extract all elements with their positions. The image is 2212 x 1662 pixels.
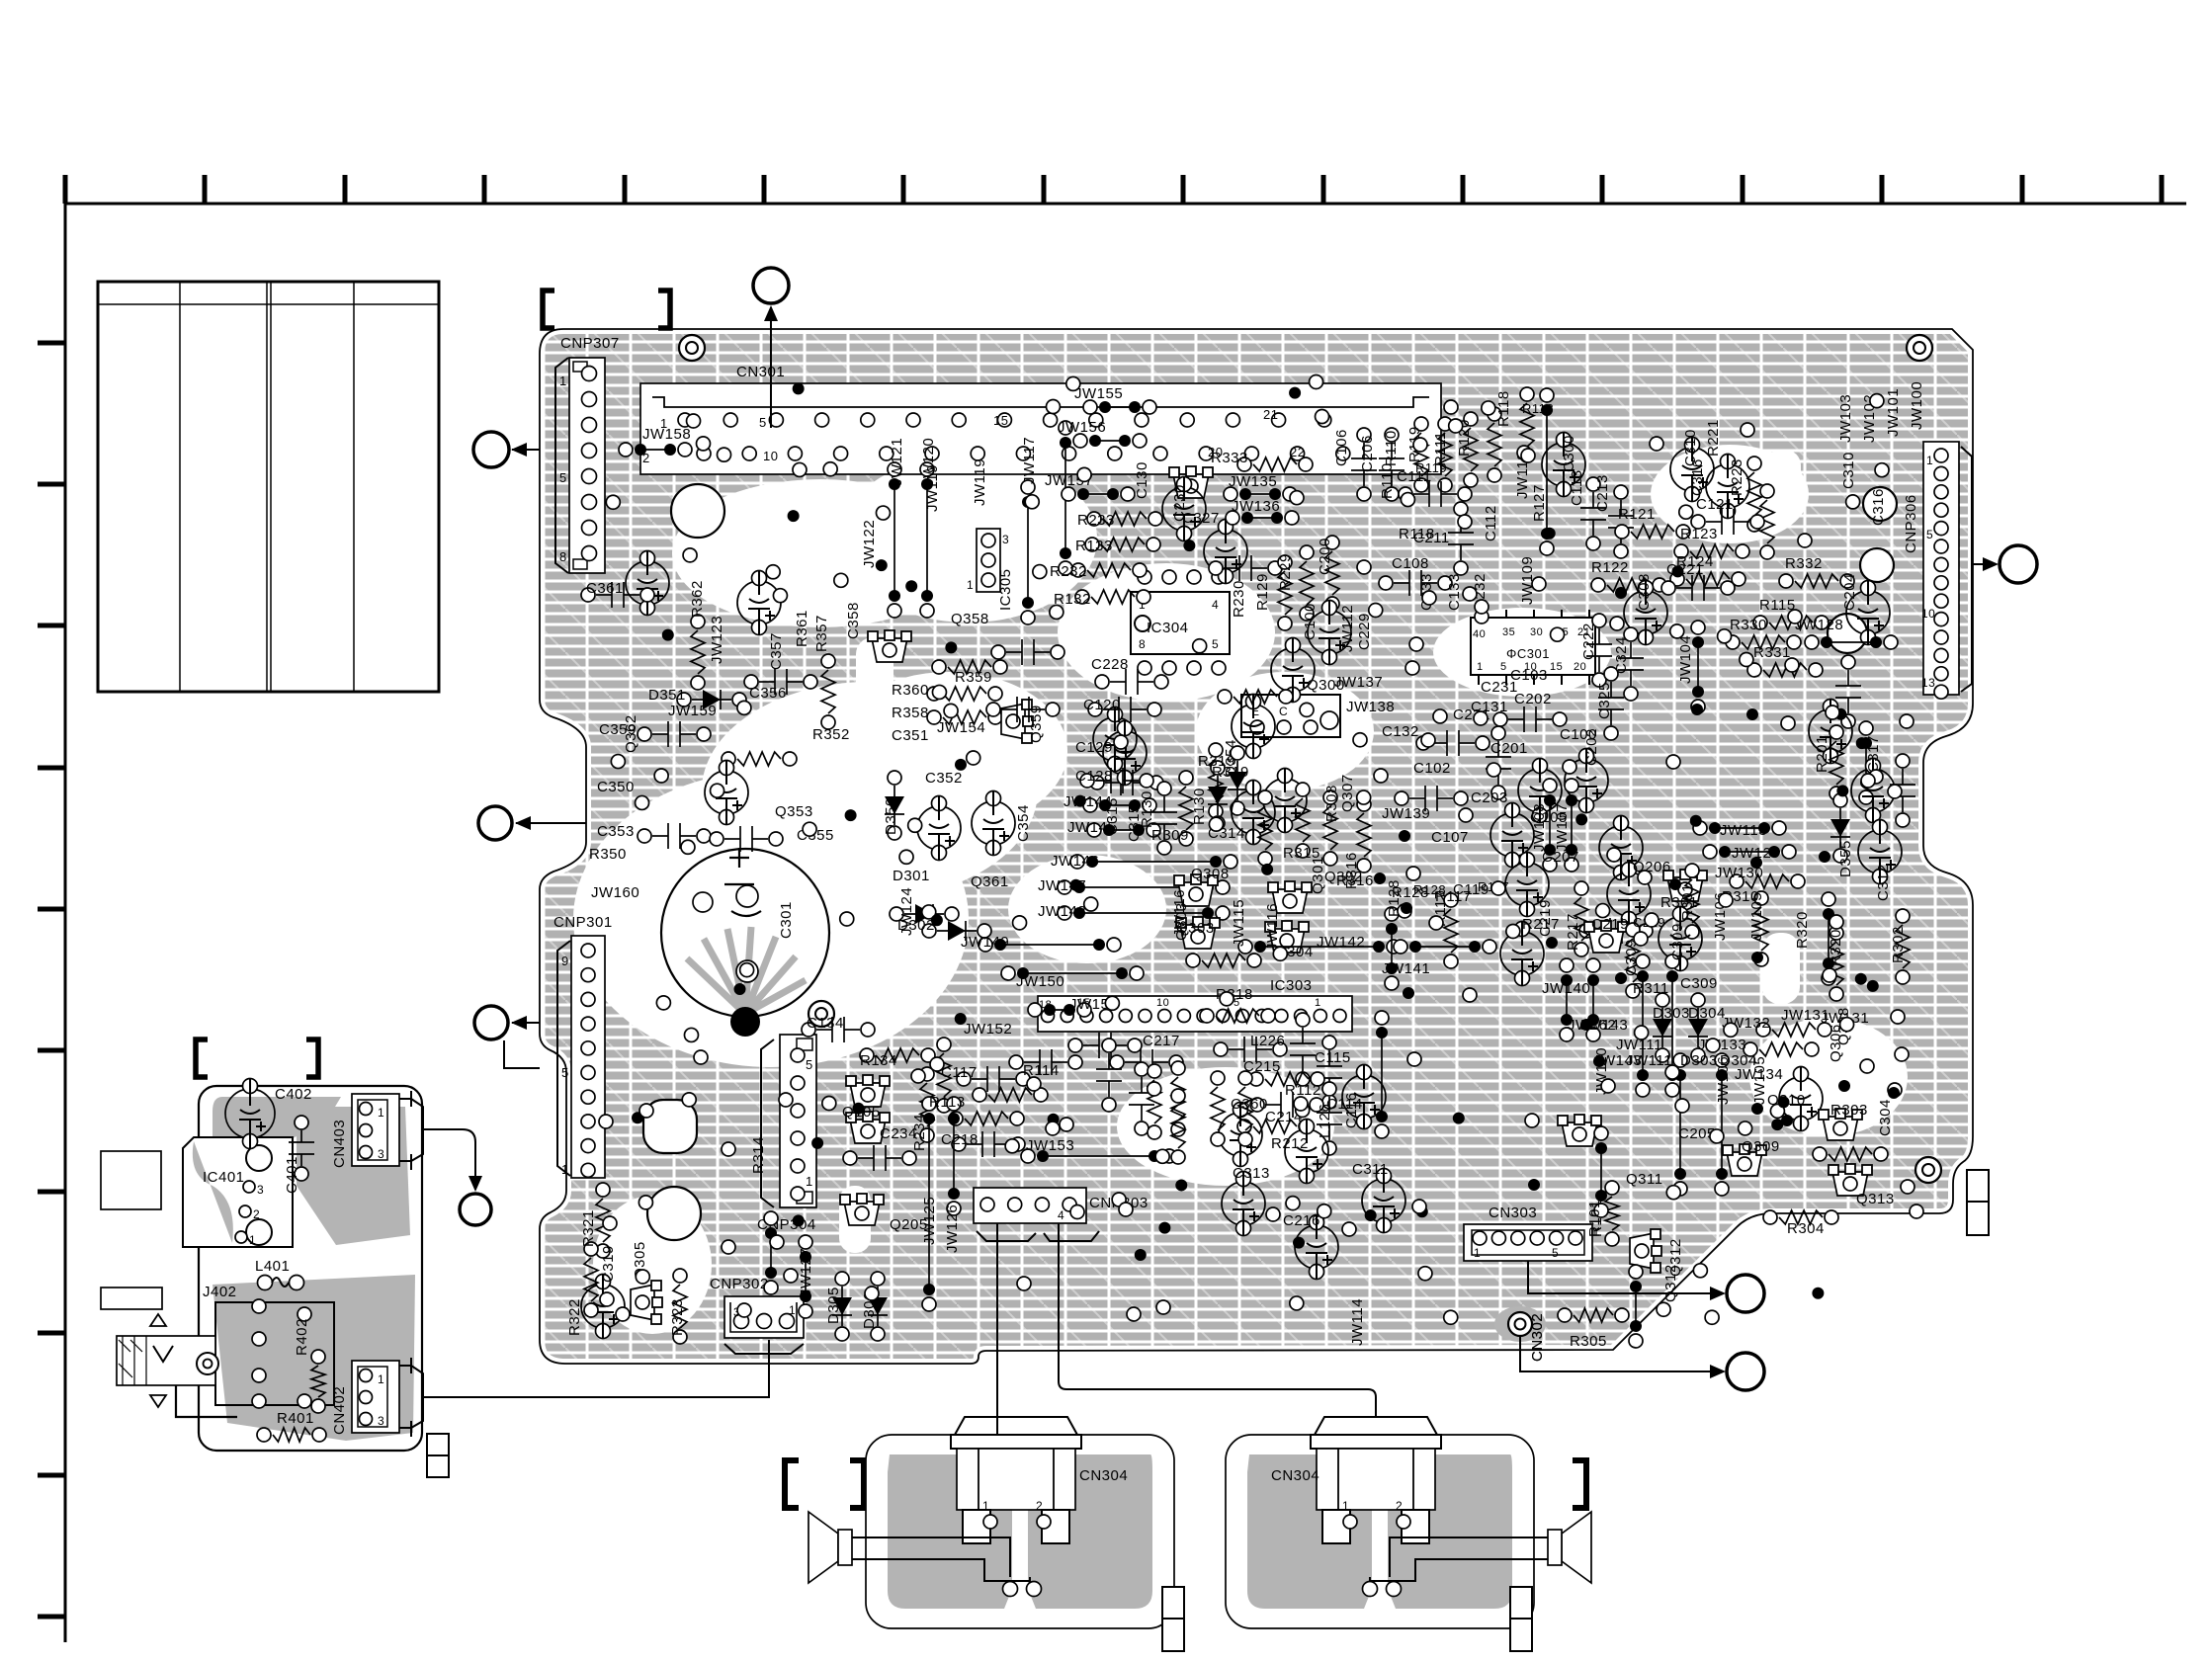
transistor D354 block bbox=[1241, 695, 1340, 737]
svg-text:C361: C361 bbox=[586, 580, 624, 597]
resistor bbox=[1685, 864, 1699, 939]
svg-text:R332: R332 bbox=[1785, 555, 1823, 572]
capacitor bbox=[986, 697, 1060, 722]
svg-text:1: 1 bbox=[1926, 454, 1933, 467]
diode bbox=[922, 921, 991, 941]
svg-text:CNP302: CNP302 bbox=[710, 1276, 769, 1292]
svg-text:1: 1 bbox=[378, 1372, 384, 1386]
svg-text:1: 1 bbox=[982, 1499, 989, 1513]
speaker block right CN304 bbox=[1226, 1417, 1591, 1628]
svg-text:C311: C311 bbox=[1352, 1161, 1389, 1178]
top tick marks bbox=[65, 175, 2162, 204]
capacitor bbox=[1110, 1049, 1183, 1075]
svg-text:JW138: JW138 bbox=[1346, 699, 1395, 715]
svg-text:C360: C360 bbox=[1231, 1096, 1268, 1113]
svg-text:15: 15 bbox=[993, 413, 1008, 428]
diode bbox=[1688, 993, 1708, 1062]
capacitor bbox=[1379, 428, 1404, 501]
svg-text:10: 10 bbox=[1921, 607, 1935, 621]
solder dot bbox=[730, 1007, 760, 1037]
svg-text:D350: D350 bbox=[883, 797, 899, 835]
resistor bbox=[1171, 1061, 1185, 1136]
capacitor bbox=[744, 669, 817, 695]
capacitor bbox=[1209, 555, 1282, 581]
resistor bbox=[1211, 1071, 1225, 1146]
svg-text:C401: C401 bbox=[284, 1156, 300, 1194]
jumper wire bbox=[888, 462, 901, 618]
svg-text:R309: R309 bbox=[1151, 827, 1189, 844]
fiducial F3 bbox=[808, 1001, 834, 1027]
svg-text:5: 5 bbox=[559, 470, 567, 485]
capacitor bbox=[1379, 570, 1452, 596]
svg-text:R401: R401 bbox=[277, 1410, 314, 1427]
svg-text:JW140: JW140 bbox=[1542, 980, 1590, 997]
fiducial F4 bbox=[1915, 1157, 1941, 1183]
svg-text:JW158: JW158 bbox=[642, 426, 691, 443]
capacitor bbox=[1090, 770, 1163, 795]
jumper wire bbox=[764, 1211, 778, 1294]
capacitor bbox=[1890, 754, 1915, 827]
resistor bbox=[1763, 1210, 1838, 1224]
transistor bbox=[868, 630, 911, 662]
capacitor bbox=[1500, 922, 1544, 986]
jumper wire bbox=[1058, 880, 1230, 894]
svg-text:C108: C108 bbox=[1392, 555, 1429, 572]
capacitor bbox=[1342, 1065, 1386, 1129]
svg-text:C132: C132 bbox=[1382, 723, 1419, 740]
svg-text:C116: C116 bbox=[1343, 1092, 1360, 1128]
svg-text:D301: D301 bbox=[893, 868, 930, 884]
svg-text:R122: R122 bbox=[1591, 559, 1629, 576]
resistor bbox=[673, 1269, 687, 1344]
resistor bbox=[1829, 725, 1843, 800]
resistor bbox=[1591, 578, 1666, 592]
capacitor bbox=[1598, 667, 1624, 740]
svg-text:R331: R331 bbox=[1753, 644, 1791, 661]
resistor bbox=[1615, 525, 1690, 539]
capacitor bbox=[1493, 706, 1567, 732]
capacitor bbox=[1295, 1215, 1338, 1280]
speaker block left CN304 bbox=[808, 1417, 1174, 1628]
svg-text:JW126: JW126 bbox=[944, 1205, 961, 1253]
capacitor bbox=[1103, 721, 1147, 786]
resistor bbox=[932, 660, 1007, 674]
capacitor bbox=[1851, 759, 1895, 823]
IC IC401 bbox=[183, 1137, 293, 1247]
jumper wire bbox=[1021, 1149, 1176, 1163]
svg-text:C228: C228 bbox=[1091, 656, 1129, 673]
svg-text:C204: C204 bbox=[1841, 573, 1858, 611]
svg-text:C316: C316 bbox=[1870, 488, 1887, 526]
mounting hole H1 bbox=[671, 484, 724, 538]
svg-text:R134: R134 bbox=[860, 1052, 897, 1069]
jumper wire bbox=[1385, 907, 1399, 990]
connector CNP303 bbox=[974, 1188, 1099, 1241]
jumper wire bbox=[1087, 823, 1160, 837]
tape mark D bbox=[1967, 1170, 1989, 1235]
svg-text:5: 5 bbox=[759, 415, 767, 430]
svg-text:C: C bbox=[1279, 705, 1288, 718]
resistor bbox=[691, 615, 705, 690]
resistor bbox=[1753, 616, 1829, 629]
svg-text:JW114: JW114 bbox=[1349, 1298, 1366, 1346]
tape mark C bbox=[1510, 1587, 1532, 1651]
svg-text:C221: C221 bbox=[1666, 561, 1704, 578]
resistor bbox=[1087, 512, 1162, 526]
svg-text:Q353: Q353 bbox=[775, 803, 813, 820]
capacitor bbox=[972, 791, 1015, 856]
svg-text:JW119: JW119 bbox=[972, 458, 988, 506]
jumper wire bbox=[1073, 434, 1147, 448]
svg-text:R201: R201 bbox=[1814, 735, 1830, 773]
jumper wire bbox=[1083, 798, 1156, 812]
capacitor bbox=[1009, 1049, 1082, 1075]
capacitor bbox=[1093, 707, 1137, 772]
svg-text:21: 21 bbox=[1263, 407, 1278, 422]
svg-text:5: 5 bbox=[1212, 637, 1219, 651]
svg-text:40: 40 bbox=[1473, 628, 1486, 640]
svg-text:D304: D304 bbox=[1688, 1005, 1726, 1022]
jumper wire bbox=[619, 443, 692, 457]
svg-text:JW136: JW136 bbox=[1232, 498, 1280, 515]
svg-text:L126: L126 bbox=[1317, 1104, 1333, 1138]
svg-text:R130: R130 bbox=[1191, 788, 1208, 825]
scattered junction dots bbox=[632, 382, 1879, 1298]
svg-text:D355: D355 bbox=[1837, 840, 1854, 877]
jumper JW118 bbox=[1546, 410, 1548, 534]
capacitor bbox=[991, 639, 1064, 665]
bracket pair jack bbox=[196, 1039, 208, 1077]
capacitor bbox=[1232, 781, 1275, 845]
transistor bbox=[1819, 1109, 1862, 1140]
resistor bbox=[1278, 555, 1292, 630]
svg-text:R301: R301 bbox=[1679, 883, 1696, 921]
resistor bbox=[1829, 926, 1843, 1001]
jumper wire bbox=[1028, 1003, 1091, 1017]
svg-text:R229: R229 bbox=[1277, 553, 1294, 591]
svg-text:C115: C115 bbox=[1315, 1049, 1351, 1066]
capacitor bbox=[1399, 481, 1472, 507]
svg-text:9: 9 bbox=[561, 954, 569, 968]
resistor bbox=[1071, 563, 1147, 577]
mounting hole H5 bbox=[1863, 487, 1897, 521]
transistor bbox=[1558, 1115, 1601, 1146]
svg-text:R129: R129 bbox=[1254, 573, 1271, 611]
svg-text:CNP306: CNP306 bbox=[1903, 494, 1919, 553]
inductor L401 bbox=[258, 1276, 304, 1290]
svg-text:R118: R118 bbox=[1522, 401, 1554, 416]
svg-text:Q362: Q362 bbox=[623, 714, 639, 753]
svg-text:5: 5 bbox=[1500, 661, 1507, 673]
capacitor bbox=[737, 571, 781, 635]
svg-text:R305: R305 bbox=[1570, 1333, 1607, 1350]
svg-text:C128: C128 bbox=[1075, 768, 1113, 785]
svg-text:JW121: JW121 bbox=[889, 438, 905, 486]
page frame horizontal rule bbox=[65, 203, 2186, 206]
page slot rect A bbox=[101, 1151, 161, 1209]
svg-text:C325: C325 bbox=[1596, 682, 1613, 719]
svg-text:R358: R358 bbox=[892, 705, 929, 721]
svg-text:C113: C113 bbox=[1569, 469, 1585, 506]
svg-text:C222: C222 bbox=[1580, 623, 1597, 660]
svg-text:R230: R230 bbox=[1231, 580, 1247, 618]
svg-text:JW107: JW107 bbox=[1554, 803, 1571, 852]
page slot rect B bbox=[101, 1288, 162, 1309]
jack board outline bbox=[199, 1086, 422, 1451]
svg-text:C213: C213 bbox=[1594, 474, 1611, 512]
svg-text:JW124: JW124 bbox=[898, 887, 915, 936]
svg-text:3: 3 bbox=[1002, 533, 1009, 546]
resistor bbox=[1200, 1009, 1275, 1023]
jumper wire bbox=[1226, 511, 1299, 525]
svg-text:C102: C102 bbox=[1413, 760, 1451, 777]
svg-text:R221: R221 bbox=[1705, 419, 1722, 457]
svg-text:1: 1 bbox=[378, 1106, 384, 1120]
connector CN403 bbox=[352, 1091, 423, 1170]
connector IC303 bbox=[1038, 996, 1352, 1032]
capacitor bbox=[1490, 803, 1534, 868]
svg-text:R123: R123 bbox=[1680, 526, 1718, 542]
resistor bbox=[1237, 457, 1313, 471]
resistor bbox=[1574, 881, 1588, 956]
svg-text:Q358: Q358 bbox=[951, 611, 989, 627]
svg-text:C308: C308 bbox=[1636, 573, 1653, 611]
resistor bbox=[1488, 407, 1501, 482]
jumper wire bbox=[799, 1235, 812, 1318]
capacitor bbox=[1486, 726, 1511, 799]
resistor bbox=[821, 654, 835, 729]
svg-text:4: 4 bbox=[1058, 1208, 1064, 1222]
svg-text:10: 10 bbox=[1156, 997, 1169, 1009]
capacitor bbox=[1080, 768, 1153, 793]
jack board copper bbox=[213, 1097, 415, 1441]
svg-text:C354: C354 bbox=[1015, 804, 1032, 842]
resistor bbox=[973, 1088, 1048, 1102]
jumper wire bbox=[1059, 421, 1072, 575]
svg-text:Q312: Q312 bbox=[1662, 1264, 1679, 1302]
mounting hole H2 bbox=[643, 1100, 697, 1153]
svg-text:JW122: JW122 bbox=[861, 520, 878, 568]
jumper wire bbox=[947, 1097, 961, 1215]
capacitor bbox=[1607, 863, 1651, 927]
svg-text:R316: R316 bbox=[1343, 852, 1360, 889]
jumper wire bbox=[1665, 955, 1679, 1097]
capacitor bbox=[1670, 438, 1714, 502]
transistor bbox=[1829, 1164, 1872, 1196]
svg-text:R308: R308 bbox=[1323, 785, 1340, 822]
svg-text:C134: C134 bbox=[807, 1015, 844, 1032]
keepout slot B bbox=[1765, 450, 1801, 521]
capacitor bbox=[1068, 1033, 1142, 1058]
svg-text:C319: C319 bbox=[600, 1245, 617, 1283]
capacitor bbox=[1222, 1172, 1265, 1236]
capacitor bbox=[957, 1066, 1030, 1092]
capacitor bbox=[1317, 1036, 1342, 1109]
svg-text:R118: R118 bbox=[1399, 526, 1435, 542]
svg-text:R233: R233 bbox=[1077, 512, 1115, 529]
IC IC304 bbox=[1131, 570, 1230, 675]
svg-text:C117: C117 bbox=[941, 1064, 978, 1081]
svg-text:JW156: JW156 bbox=[1058, 419, 1106, 436]
svg-text:30: 30 bbox=[1530, 626, 1543, 638]
bracket pair speaker L bbox=[785, 1460, 799, 1508]
svg-text:C351: C351 bbox=[892, 727, 929, 744]
resistor bbox=[584, 1242, 598, 1317]
svg-text:IC401: IC401 bbox=[203, 1169, 245, 1186]
svg-text:R362: R362 bbox=[689, 580, 706, 618]
capacitor bbox=[1608, 485, 1634, 558]
svg-text:13: 13 bbox=[1921, 676, 1935, 690]
svg-text:C106: C106 bbox=[1333, 429, 1350, 466]
target T4 bbox=[1973, 563, 1997, 565]
target T1 bbox=[770, 307, 772, 428]
svg-text:8: 8 bbox=[559, 549, 567, 564]
capacitor bbox=[1661, 575, 1735, 601]
target T8 bbox=[516, 822, 586, 824]
capacitor bbox=[1263, 769, 1307, 833]
svg-text:C206: C206 bbox=[1359, 435, 1376, 472]
svg-text:JW103: JW103 bbox=[1837, 394, 1854, 443]
connector CN303 bbox=[1464, 1224, 1592, 1261]
svg-text:D303: D303 bbox=[1653, 1005, 1690, 1022]
svg-text:C100: C100 bbox=[1302, 603, 1319, 640]
svg-text:1: 1 bbox=[559, 374, 567, 388]
svg-text:R217: R217 bbox=[1565, 913, 1581, 951]
diode bbox=[868, 1272, 888, 1341]
PCB copper margin bbox=[540, 329, 1973, 1364]
svg-text:15: 15 bbox=[1550, 661, 1563, 673]
capacitor bbox=[1659, 907, 1702, 971]
wire CN402 to CNP302 bbox=[423, 1340, 769, 1397]
jumper wire bbox=[1673, 1053, 1687, 1196]
svg-text:JW108: JW108 bbox=[1531, 803, 1548, 852]
svg-text:IC303: IC303 bbox=[1270, 977, 1313, 994]
capacitor bbox=[1308, 601, 1351, 665]
diode bbox=[677, 690, 746, 709]
resistor bbox=[1730, 874, 1805, 888]
svg-text:R133: R133 bbox=[1075, 538, 1113, 554]
svg-text:C120: C120 bbox=[1083, 697, 1121, 713]
resistor bbox=[1779, 574, 1854, 588]
svg-text:R110: R110 bbox=[1383, 430, 1400, 466]
svg-text:R130: R130 bbox=[1139, 790, 1155, 828]
svg-text:1: 1 bbox=[806, 1174, 813, 1189]
resistor bbox=[937, 1038, 951, 1113]
svg-text:R303: R303 bbox=[1830, 1102, 1868, 1119]
svg-text:3: 3 bbox=[378, 1414, 384, 1428]
resistor bbox=[596, 1183, 610, 1258]
capacitor C402 bbox=[225, 1079, 275, 1149]
bracket pair board top bbox=[543, 291, 554, 328]
svg-text:C357: C357 bbox=[768, 632, 785, 670]
pad CN302 bbox=[1494, 1306, 1546, 1342]
svg-text:R110: R110 bbox=[1379, 462, 1396, 499]
jumper wire bbox=[1021, 480, 1035, 624]
svg-text:C309: C309 bbox=[1669, 923, 1686, 960]
resistor bbox=[1726, 635, 1801, 649]
jumper wire bbox=[1375, 1011, 1389, 1138]
svg-text:C312: C312 bbox=[1875, 864, 1892, 901]
svg-text:R304: R304 bbox=[1787, 1220, 1825, 1237]
capacitor bbox=[1395, 786, 1468, 811]
svg-text:C315: C315 bbox=[1104, 797, 1121, 835]
svg-text:C313: C313 bbox=[1233, 1165, 1270, 1182]
svg-text:C310: C310 bbox=[1840, 452, 1857, 489]
svg-text:1: 1 bbox=[1342, 1499, 1349, 1513]
svg-text:R350: R350 bbox=[589, 846, 627, 863]
jumper wire bbox=[1703, 845, 1796, 859]
svg-text:C219: C219 bbox=[1591, 916, 1629, 933]
svg-text:Q308: Q308 bbox=[1191, 866, 1230, 882]
transistor bbox=[631, 1281, 662, 1324]
svg-text:JW117: JW117 bbox=[1021, 437, 1038, 484]
transistor bbox=[1001, 700, 1033, 743]
svg-text:R128: R128 bbox=[1413, 882, 1446, 897]
connector CNP306 bbox=[1921, 442, 1972, 699]
resistor bbox=[1075, 590, 1150, 604]
jumper wire bbox=[1565, 779, 1578, 872]
resistor bbox=[1626, 923, 1640, 998]
jumper wire bbox=[1058, 906, 1230, 920]
svg-text:20: 20 bbox=[1574, 661, 1586, 673]
svg-text:2: 2 bbox=[1396, 1499, 1403, 1513]
transistor bbox=[1174, 874, 1218, 906]
svg-text:C352: C352 bbox=[925, 770, 963, 787]
svg-text:3: 3 bbox=[378, 1147, 384, 1161]
resistor bbox=[722, 752, 797, 766]
scattered pads bbox=[606, 375, 1889, 1325]
svg-text:R352: R352 bbox=[812, 726, 850, 743]
transistor bbox=[1268, 881, 1312, 913]
svg-text:CN403: CN403 bbox=[331, 1120, 348, 1168]
svg-text:C301: C301 bbox=[778, 901, 795, 939]
svg-text:CNP307: CNP307 bbox=[560, 335, 620, 352]
capacitor bbox=[1416, 730, 1489, 756]
diode bbox=[1228, 746, 1247, 815]
IC IC305 bbox=[967, 529, 1009, 592]
target T7 bbox=[422, 1129, 475, 1190]
jumper wire bbox=[1805, 635, 1898, 649]
resistor bbox=[1438, 417, 1452, 492]
svg-text:R121: R121 bbox=[1618, 506, 1656, 523]
svg-text:JW149: JW149 bbox=[961, 934, 1009, 951]
svg-text:R402: R402 bbox=[294, 1318, 310, 1356]
svg-text:JW111: JW111 bbox=[1626, 1052, 1672, 1069]
capacitor bbox=[1505, 853, 1549, 917]
svg-text:R333: R333 bbox=[1211, 450, 1248, 466]
capacitor bbox=[1362, 1169, 1405, 1233]
svg-text:2: 2 bbox=[253, 1207, 260, 1221]
svg-text:CN304: CN304 bbox=[1271, 1467, 1319, 1484]
transistor bbox=[1176, 917, 1220, 949]
capacitor bbox=[917, 796, 961, 861]
transistor bbox=[1265, 921, 1309, 953]
jumper wire bbox=[1691, 621, 1705, 713]
resistor bbox=[1296, 783, 1310, 858]
svg-text:C201: C201 bbox=[1490, 740, 1528, 757]
resistor R305 bbox=[1558, 1308, 1629, 1322]
svg-text:R323: R323 bbox=[669, 1298, 686, 1336]
connector CN402 bbox=[352, 1358, 423, 1437]
svg-text:35: 35 bbox=[1502, 626, 1515, 638]
bracket pair speaker R bbox=[1505, 1460, 1519, 1508]
capacitor bbox=[1317, 1082, 1342, 1155]
resistor bbox=[1754, 891, 1768, 966]
connector CNP302 bbox=[724, 1296, 804, 1354]
svg-text:C202: C202 bbox=[1583, 728, 1600, 766]
svg-text:R314: R314 bbox=[750, 1136, 767, 1174]
svg-text:4: 4 bbox=[1212, 598, 1219, 612]
